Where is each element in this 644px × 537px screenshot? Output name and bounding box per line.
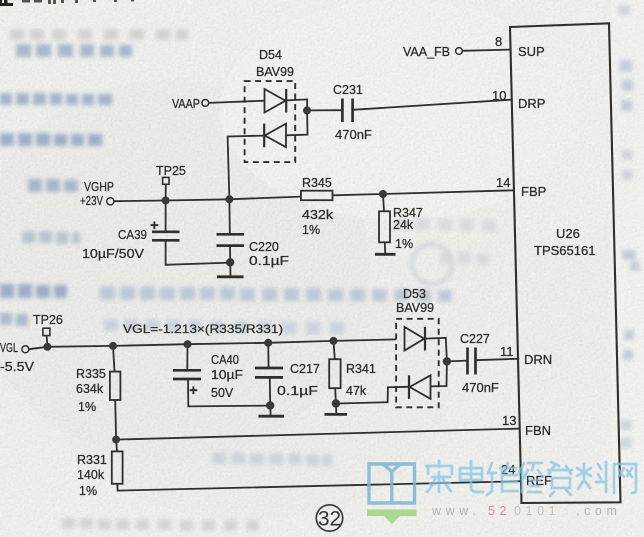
ground under C220: [229, 262, 231, 275]
wire node to C227: [447, 360, 468, 363]
wire node to pin 14: [383, 190, 514, 194]
svg-text:BAV99: BAV99: [256, 65, 294, 79]
svg-text:14: 14: [496, 175, 510, 190]
dashed package D54: [245, 81, 296, 162]
svg-text:47k: 47k: [346, 384, 367, 398]
svg-text:U26: U26: [556, 226, 580, 241]
svg-text:FBP: FBP: [521, 184, 546, 199]
svg-text:0101: 0101: [514, 504, 560, 518]
wire VAA_FB to pin 8: [463, 50, 510, 51]
book icon blue open book: [369, 464, 415, 503]
capacitor C220: [228, 199, 230, 234]
terminal VGHP: [107, 198, 114, 205]
svg-text:VGL=-1.213×(R335/R331): VGL=-1.213×(R335/R331): [123, 322, 283, 336]
svg-text:470nF: 470nF: [335, 127, 372, 142]
diode D53 lower: [409, 375, 431, 399]
修: [519, 463, 543, 492]
svg-text:VAAP: VAAP: [172, 97, 200, 111]
wire VGL rail: [29, 339, 396, 349]
svg-text:140k: 140k: [77, 468, 105, 482]
wire D54 lower right up to node: [286, 110, 308, 135]
svg-text:www.: www.: [431, 504, 480, 518]
resistor R345: [301, 191, 333, 201]
svg-text:0.1µF: 0.1µF: [249, 254, 289, 268]
wire VAAP to D54 upper diode: [209, 101, 264, 103]
svg-text:VAA_FB: VAA_FB: [403, 45, 450, 59]
right margin fragments: [620, 60, 640, 360]
diode D53 upper: [405, 327, 426, 351]
wire VGHP rail: [114, 197, 301, 202]
svg-text:R335: R335: [76, 367, 106, 381]
svg-text:C227: C227: [460, 332, 490, 346]
料: [577, 462, 606, 492]
svg-text:DRN: DRN: [524, 352, 552, 367]
IC U26 TPS65161 box: [510, 23, 621, 503]
svg-text:1%: 1%: [78, 400, 96, 414]
diode D54 upper: [265, 89, 287, 113]
wire D54 upper to corner: [286, 99, 307, 110]
网: [614, 464, 636, 493]
capacitor C217: [267, 343, 269, 368]
terminal VAA_FB: [456, 48, 463, 55]
svg-text:R341: R341: [346, 362, 376, 376]
svg-text:10µF: 10µF: [211, 368, 243, 382]
svg-text:10: 10: [492, 88, 506, 103]
svg-text:CA40: CA40: [211, 353, 239, 367]
capacitor C231: [342, 99, 352, 123]
svg-text:1%: 1%: [302, 223, 320, 237]
test point TP26: [43, 328, 50, 335]
watermark characters 家电维修资料网: [426, 461, 636, 496]
wire C231 to pin 10: [353, 100, 512, 110]
wire D54 lower left down to VGHP rail: [228, 136, 265, 200]
svg-text:C217: C217: [290, 362, 320, 376]
diode D54 lower: [264, 124, 286, 148]
svg-text:CA39: CA39: [118, 228, 147, 242]
svg-text:C231: C231: [333, 83, 363, 97]
wire R345 to node: [333, 194, 384, 195]
figure number circle 32: [316, 505, 342, 531]
svg-text:BAV99: BAV99: [396, 301, 434, 315]
svg-text:C220: C220: [249, 240, 279, 254]
svg-text:634k: 634k: [76, 382, 104, 396]
svg-text:FBN: FBN: [525, 423, 551, 438]
维: [487, 463, 518, 495]
test point TP25: [163, 177, 169, 184]
svg-text:SUP: SUP: [518, 44, 545, 59]
svg-text:R331: R331: [77, 453, 107, 467]
faint stuff right of FBP area: [395, 218, 496, 265]
svg-text:D54: D54: [259, 48, 282, 62]
svg-text:R345: R345: [302, 176, 332, 190]
svg-text:11: 11: [500, 344, 514, 359]
wire node to C231: [307, 109, 342, 111]
svg-text:TP25: TP25: [156, 164, 186, 178]
svg-text:-5.5V: -5.5V: [0, 360, 35, 374]
wire D53 lower to node: [431, 361, 447, 386]
capacitor CA39 electrolytic: [165, 201, 167, 232]
capacitor CA40 electrolytic: [186, 344, 188, 370]
svg-text:0.1µF: 0.1µF: [277, 384, 318, 398]
svg-text:1%: 1%: [79, 484, 97, 498]
资: [548, 462, 572, 496]
resistor R341: [334, 341, 335, 359]
book icon green base ribbon: [367, 510, 417, 525]
resistor R335: [113, 346, 115, 372]
svg-text:D53: D53: [403, 287, 426, 301]
www.520101.com: [431, 504, 622, 518]
svg-text:8: 8: [495, 34, 502, 49]
svg-text:52: 52: [488, 504, 511, 518]
svg-text:.com: .com: [576, 504, 622, 518]
svg-text:+: +: [189, 382, 198, 399]
wire REF (pin 24): [117, 481, 521, 490]
电: [460, 461, 483, 492]
svg-text:432k: 432k: [302, 208, 334, 222]
ground under R341: [335, 404, 337, 414]
terminal VAAP: [202, 100, 209, 107]
svg-text:DRP: DRP: [518, 96, 545, 111]
resistor R331: [115, 440, 118, 452]
wire FBN (pin 13): [116, 429, 520, 440]
top-left cut-off printed text (bottoms of glyphs): [0, 0, 13, 6]
svg-text:+: +: [150, 217, 159, 234]
svg-text:VGL: VGL: [0, 341, 18, 355]
wire R341 node to D53 lower: [336, 387, 409, 404]
家: [426, 461, 452, 492]
svg-text:TPS65161: TPS65161: [534, 243, 595, 258]
resistor R347: [383, 194, 384, 211]
svg-text:10µF/50V: 10µF/50V: [82, 247, 145, 261]
svg-text:+23V: +23V: [80, 194, 104, 208]
dashed package D53: [396, 319, 439, 408]
svg-text:TP26: TP26: [33, 313, 63, 327]
svg-text:470nF: 470nF: [462, 380, 499, 395]
wire C227 to pin 11: [476, 359, 520, 361]
svg-text:13: 13: [502, 413, 516, 428]
svg-text:50V: 50V: [211, 386, 234, 400]
svg-text:VGHP: VGHP: [84, 180, 114, 194]
svg-text:24k: 24k: [393, 218, 414, 232]
wire D53 upper to node: [425, 338, 447, 362]
ground under R347: [384, 242, 386, 253]
svg-text:1%: 1%: [395, 237, 413, 251]
terminal VGL: [22, 346, 29, 353]
ground under C217: [269, 406, 271, 416]
capacitor C227: [468, 348, 476, 375]
svg-text:32: 32: [318, 508, 341, 531]
